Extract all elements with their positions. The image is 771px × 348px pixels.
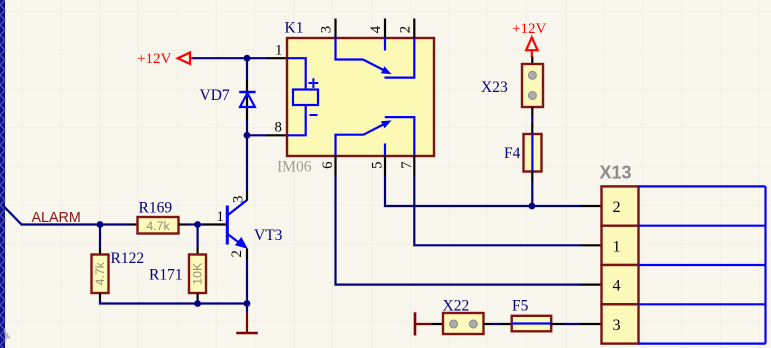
svg-text:K1: K1 (285, 20, 304, 37)
svg-text:F5: F5 (512, 297, 529, 314)
svg-text:4: 4 (612, 277, 620, 295)
pin X13.4 (581, 284, 602, 286)
connector X13 pin 2 box (602, 186, 639, 225)
node junction A (base net left) (97, 221, 104, 228)
pin VT3.2 (emitter) (246, 249, 248, 260)
svg-text:X23: X23 (481, 79, 508, 96)
pin F5.2 (551, 323, 563, 325)
wire ground rail (198, 302, 247, 304)
node junction G (F4 output on row) (529, 203, 536, 210)
relay coil circuit (287, 58, 318, 135)
pin X22.2 lead (484, 323, 492, 325)
diode VD7 (239, 92, 255, 107)
wire emitter down to ground rail (246, 259, 248, 304)
wire junction F to K1 pin 8 (247, 134, 268, 136)
pin K1.2 (413, 19, 415, 39)
pin K1.6 (334, 156, 336, 176)
resistor R171 body (189, 255, 206, 294)
wire K1 pin6 to X13 pin4 row (336, 175, 582, 285)
ground symbol (236, 313, 257, 334)
node junction C (ground rail at R171) (194, 300, 201, 307)
svg-text:1: 1 (217, 209, 224, 225)
wire K1 pin5 to X13 pin2 row (385, 175, 582, 206)
terminal stub (left of X22) (415, 312, 433, 335)
svg-text:8: 8 (275, 120, 282, 136)
pin R122.2 (99, 293, 101, 300)
wire junction A down to R122 (99, 225, 101, 249)
pin K1.8 (267, 134, 287, 136)
wire R169 to junction B (187, 223, 198, 225)
pin K1.4 (384, 19, 386, 39)
pin X13.1 (581, 244, 602, 246)
svg-text:5: 5 (370, 161, 386, 168)
connector X13 pin 1 box (602, 226, 639, 265)
pad X22.1 (450, 320, 458, 328)
svg-text:IM06: IM06 (277, 159, 312, 176)
pin X13.2 (581, 205, 602, 207)
pin R122.1 (99, 248, 101, 255)
resistor R169 body (138, 217, 179, 234)
svg-text:4.7k: 4.7k (146, 219, 170, 233)
wire X22 to F5 (492, 323, 501, 325)
node junction E (+12V net top) (244, 55, 251, 62)
fuse F4 (524, 134, 542, 172)
pin VD7 anode (246, 107, 248, 120)
svg-text:3: 3 (319, 26, 335, 33)
node junction F (pin 8 net) (244, 132, 251, 139)
pin F4.2 (531, 172, 533, 182)
svg-text:2: 2 (397, 26, 413, 33)
pin K1.1 (267, 57, 287, 59)
relay contact 2 (pins 6-5-7) (336, 117, 415, 156)
svg-text:7: 7 (399, 161, 415, 168)
power port +12V (left) (137, 51, 193, 67)
pin X23.1 (531, 57, 533, 65)
pin R169.2 (179, 223, 188, 225)
svg-text:+12V: +12V (137, 51, 171, 67)
wire R171 to ground rail (197, 299, 199, 304)
harness cable to X13 (639, 186, 766, 343)
wire junction A to R169 (100, 223, 130, 225)
svg-text:10K: 10K (190, 262, 204, 285)
wire F4 to junction G (531, 182, 533, 207)
pin R171.1 (197, 248, 199, 255)
wire emitter junction to ground (246, 304, 248, 314)
power port +12V (top right) (512, 21, 546, 57)
wire junction B down to R171 (197, 225, 199, 249)
pin K1.3 (334, 19, 336, 39)
pin F4.1 (531, 124, 533, 134)
svg-text:+12V: +12V (512, 21, 546, 37)
relay contact 1 (pins 3-4-2) (336, 38, 415, 78)
pad X23.2 (528, 92, 536, 100)
wire X23 to F4 (531, 115, 533, 125)
connector X22 body (443, 313, 484, 334)
svg-text:VD7: VD7 (200, 87, 230, 104)
svg-text:X22: X22 (443, 297, 470, 314)
pin X22.1 (432, 323, 443, 325)
wire junction E to K1 pin 1 (247, 57, 268, 59)
pad X22.2 (469, 320, 477, 328)
pin X13.3 (580, 323, 602, 325)
svg-text:2: 2 (612, 198, 620, 216)
node junction B (base net right) (194, 221, 201, 228)
wire F5 to X13 pin3 (564, 323, 581, 325)
wire junction E down to VD7 (246, 58, 248, 80)
svg-text:4: 4 (368, 25, 384, 33)
svg-text:R169: R169 (139, 199, 173, 216)
net ALARM entry wire (4, 207, 100, 225)
svg-text:F4: F4 (504, 145, 521, 162)
relay K1 body (287, 38, 434, 156)
pin VD7 cathode (246, 80, 248, 109)
wire R122 to ground rail (100, 299, 198, 304)
wire +12V to junction E (193, 57, 248, 59)
pin VT3.1 (base) (203, 223, 227, 225)
wire junction B to VT3 base (198, 223, 204, 225)
svg-text:3: 3 (230, 196, 246, 203)
svg-text:2: 2 (229, 250, 245, 257)
pin VT3.3 (collector) (246, 191, 248, 201)
svg-text:R122: R122 (111, 250, 145, 267)
connector X23 body (522, 64, 543, 107)
svg-text:VT3: VT3 (254, 227, 283, 244)
svg-text:6: 6 (320, 161, 336, 168)
svg-text:ALARM: ALARM (32, 210, 81, 226)
wire collector up to diode net (246, 135, 248, 191)
fuse F5 (512, 316, 552, 332)
transistor VT3 (227, 200, 248, 249)
svg-text:4.7k: 4.7k (93, 261, 107, 285)
wire K1 pin7 to X13 pin1 row (414, 175, 581, 245)
connector X13 pin 3 box (602, 304, 639, 343)
pad X23.1 (528, 71, 536, 79)
pin R171.2 (197, 293, 199, 300)
resistor R122 body (92, 255, 109, 294)
svg-text:X13: X13 (600, 163, 632, 183)
connector X13 pin 4 box (602, 265, 639, 304)
svg-text:3: 3 (612, 316, 620, 334)
cursor arrow (4, 328, 11, 343)
svg-text:1: 1 (275, 43, 282, 59)
pin X23.2 lead (531, 107, 533, 115)
pin K1.5 (384, 156, 386, 176)
pin K1.7 (413, 156, 415, 176)
pin R169.1 (130, 223, 138, 225)
svg-text:R171: R171 (149, 267, 183, 284)
pin F5.1 (500, 323, 513, 325)
node junction D (ground rail at emitter) (244, 300, 251, 307)
wire VD7 to junction F (246, 120, 248, 136)
svg-text:1: 1 (612, 237, 620, 255)
sheet left border (0, 0, 5, 348)
